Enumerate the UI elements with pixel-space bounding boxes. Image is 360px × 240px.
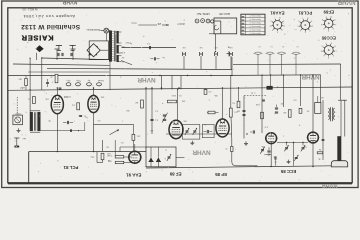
heater mid wire [28, 71, 109, 73]
svg-text:NVHR: NVHR [192, 149, 210, 156]
svg-text:W 6011 - 53: W 6011 - 53 [22, 8, 37, 12]
wave switch contact S3 [214, 46, 218, 69]
wire v x283 [283, 75, 285, 107]
heater bus wire upper [42, 58, 110, 90]
NVHR watermark top-left [62, 0, 77, 4]
extra value labels [44, 92, 344, 160]
svg-text:Skalenlampe: Skalenlampe [86, 28, 100, 31]
transformer tap label 6,3V [120, 51, 125, 53]
wire into EAA91 [115, 140, 184, 163]
svg-text:UK: UK [182, 46, 186, 48]
svg-text:EF89: EF89 [323, 9, 334, 14]
outer border frame [2, 1, 358, 188]
tube label EAA91 [126, 173, 142, 178]
wire v x323 [322, 100, 324, 160]
title annotation number [22, 8, 37, 12]
tube label EF85 bottom [215, 172, 227, 177]
svg-text:0,5M: 0,5M [107, 154, 112, 156]
resistor R1 [27, 97, 36, 104]
svg-text:UK: UK [199, 46, 203, 48]
supply rail wire y69 [47, 68, 232, 69]
electrolytic C2 [75, 79, 80, 86]
mains transformer TR1 core [115, 31, 116, 62]
ground G3 [244, 141, 248, 145]
svg-text:EAA 91: EAA 91 [126, 173, 142, 178]
svg-text:1M: 1M [237, 110, 240, 112]
output transformer TR2 [30, 111, 40, 132]
trimmer C11 [167, 154, 171, 161]
tube label PCL81 [63, 165, 78, 170]
title schaltbild line [21, 23, 80, 30]
wire T1 bottom [56, 114, 58, 152]
pinout diagram ECC85 [320, 35, 337, 57]
pinout diagram EF89 [320, 9, 336, 30]
bottom bus wire right [146, 166, 332, 168]
svg-text:Spannung. 6: Spannung. 6 [249, 32, 261, 34]
wire bottom mid [166, 133, 232, 135]
svg-text:EF 85: EF 85 [215, 172, 227, 177]
rectifier housing box [89, 41, 108, 60]
svg-text:1M: 1M [135, 101, 138, 103]
svg-text:220V~: 220V~ [14, 112, 21, 114]
wire transformer to switch row [122, 47, 177, 49]
tube EF85 T5 [216, 119, 229, 137]
resistor R4 [135, 100, 143, 108]
speaker feed wire [233, 64, 341, 100]
tube EAA91 T3 [128, 151, 142, 163]
wire v x232 [231, 57, 232, 139]
ground G2 [190, 141, 194, 145]
trimmer C21 [301, 143, 305, 152]
electrolytic C4 [59, 79, 104, 89]
svg-text:NVHR: NVHR [62, 0, 77, 4]
mains transformer TR1 secondary windings [117, 31, 122, 62]
capacitor C25 [46, 79, 49, 87]
coupling cap on rail [267, 85, 278, 89]
svg-text:2M: 2M [126, 109, 129, 111]
UKW pointer label [177, 22, 186, 25]
resistor R10 [299, 108, 302, 113]
svg-text:6,3V: 6,3V [120, 51, 125, 53]
resistor R19 [207, 111, 219, 114]
svg-text:24: 24 [157, 22, 161, 26]
capacitor C5 [79, 115, 86, 117]
tube PCL81 T1 [51, 95, 63, 113]
Kaiser diamond logo [36, 45, 76, 52]
bandfilter box B1 [182, 125, 200, 140]
svg-text:Spannung. 6: Spannung. 6 [249, 28, 261, 30]
wave switch contact S4 [229, 46, 233, 69]
main HT rail wire [8, 87, 352, 90]
IF coil L6 [328, 107, 335, 121]
svg-text:Skala: Skala [130, 22, 136, 24]
NVHR watermark bottom-right [322, 182, 338, 188]
supply rail wire right [230, 74, 321, 102]
trimmer C22 [294, 155, 298, 161]
wire v x312 [271, 75, 313, 166]
FM tuner unit box [214, 18, 237, 34]
detector diode D2 [156, 147, 161, 167]
svg-text:1M: 1M [137, 135, 140, 137]
svg-text:Spannung. 6: Spannung. 6 [249, 25, 261, 27]
svg-text:ECC 85: ECC 85 [280, 169, 296, 174]
mains ground [17, 128, 21, 132]
wire antenna terminal A [55, 49, 60, 60]
resistor R15 [204, 87, 239, 94]
capacitor C17 [274, 156, 276, 165]
wave switch contact S2 [199, 46, 203, 69]
bridge rectifier BR1 [87, 44, 108, 57]
trimmer C13 [193, 128, 197, 135]
wire T5 top [222, 88, 224, 119]
wire dashed mains [16, 97, 18, 115]
mains transformer TR1 primary winding [109, 31, 113, 62]
dial lamp label [86, 28, 100, 31]
trimmer C12 [185, 128, 189, 135]
tuning gang dashed link [244, 95, 267, 97]
svg-text:UKW-Teil: UKW-Teil [197, 12, 210, 16]
FM unit label left [197, 12, 210, 16]
svg-text:EAA91: EAA91 [270, 11, 285, 16]
volume pot R18 [110, 130, 141, 141]
resistor R9 [283, 110, 291, 118]
wire logo stub [36, 53, 38, 60]
ferrite antenna pedestal [331, 137, 347, 167]
speaker wires [322, 100, 347, 140]
wire v x262 [261, 75, 263, 133]
NVHR watermark left-middle [137, 76, 155, 83]
title KAISER logotype [21, 33, 54, 42]
filter coil L2 [266, 45, 275, 75]
detector filter box [146, 147, 176, 167]
svg-text:A B: A B [21, 86, 25, 89]
voltage legend table [241, 14, 265, 35]
svg-text:Spannung. 6: Spannung. 6 [249, 18, 261, 20]
volume pot wire [94, 124, 134, 151]
bottom frame step wire [28, 152, 30, 184]
resistor R20 [18, 76, 27, 90]
capacitor C27 [262, 100, 265, 101]
NVHR watermark right-middle [301, 73, 319, 80]
tube label EF89 bottom [169, 171, 181, 176]
capacitor C7 [150, 119, 158, 121]
svg-text:2n: 2n [274, 161, 276, 163]
small cap near transformer [151, 56, 165, 60]
NVHR watermark center-bottom [192, 149, 210, 156]
dial cord run with arrow [138, 24, 169, 26]
resistor R5 [107, 154, 124, 158]
tube label above T1 [63, 95, 70, 97]
wire v x300 [300, 75, 302, 106]
capacitor C6 [63, 121, 73, 124]
bottom bus wire left [29, 151, 146, 153]
filter coil L3 [277, 45, 286, 75]
svg-text:1M: 1M [283, 111, 286, 113]
FM unit tube circles [195, 19, 214, 23]
resistor R17 [261, 112, 264, 119]
resistor R6 [107, 160, 124, 164]
transformer tap label 4V [121, 56, 124, 62]
svg-text:PCL81: PCL81 [298, 11, 312, 16]
tube label ECC85 bottom [280, 169, 296, 174]
scan speckle noise [10, 12, 350, 182]
svg-text:Spannung. 6: Spannung. 6 [249, 22, 261, 24]
wire T2 top [93, 88, 95, 96]
trimmer C20 [284, 143, 288, 152]
ECC85 cathode wire [277, 142, 308, 166]
title edition line [23, 14, 75, 19]
svg-text:ECC85: ECC85 [321, 35, 336, 40]
paper background [0, 0, 360, 192]
svg-text:NVHR: NVHR [137, 76, 155, 83]
mains selector plug [13, 112, 23, 125]
wire v x152 [151, 88, 153, 134]
svg-text:220V: 220V [125, 41, 130, 43]
wire v x247 [243, 96, 246, 139]
misc value labels [21, 42, 260, 105]
NVHR watermark top-right [337, 0, 355, 5]
svg-text:NVHR: NVHR [337, 0, 355, 5]
inner border frame [8, 8, 352, 184]
tube ECC85b T8 [307, 132, 320, 143]
FM unit label right [219, 12, 230, 16]
IF can box [315, 96, 321, 113]
ground G4 [287, 160, 291, 164]
resistor R16 [231, 88, 240, 108]
IF output elbow wire [232, 139, 258, 166]
wire T1 top [56, 88, 58, 96]
coupling caps C26 [162, 113, 168, 123]
output coupling wire [40, 122, 85, 132]
svg-text:1M: 1M [150, 129, 153, 131]
resistor R2 [49, 74, 57, 83]
svg-text:UK: UK [214, 46, 218, 48]
svg-text:50mA: 50mA [98, 79, 104, 82]
dial lamp LP1 [101, 28, 111, 41]
wire v x161 [162, 76, 182, 90]
antenna coupling caps [58, 53, 72, 56]
earth terminal [14, 137, 26, 148]
resistor R11 [317, 148, 323, 154]
wire T2 bottom [93, 113, 95, 152]
wire FM box down [209, 34, 216, 50]
transformer tap label 220V [120, 45, 124, 47]
capacitor C18 [250, 130, 254, 133]
wire T4 top [177, 89, 178, 121]
phono input terminal [227, 45, 232, 56]
wave switch contact S1 [182, 46, 186, 69]
heater bus wire lower [13, 64, 110, 65]
svg-text:PCL 81: PCL 81 [63, 165, 78, 170]
capacitor C23 [267, 147, 270, 156]
pinout diagram EAA91 [269, 11, 285, 33]
tube ECC85a T7 [265, 133, 278, 144]
wire v x146 [145, 88, 147, 148]
resistor R14 [168, 99, 186, 102]
tube EF89 T4 [169, 120, 183, 138]
resistor R7 [229, 108, 237, 117]
electrolytic C3 [87, 79, 92, 86]
electrolytic C1 [66, 79, 71, 86]
svg-text:Schaltbild W 1132: Schaltbild W 1132 [21, 23, 80, 30]
resistor R8 [225, 147, 233, 152]
svg-text:KAISER: KAISER [21, 33, 54, 42]
resistor R3 [71, 103, 79, 110]
cathode cap C8 [90, 140, 111, 163]
bandfilter box B2 [202, 125, 214, 138]
supply rail wire y76 [8, 75, 232, 77]
capacitor C14 [204, 130, 213, 133]
svg-text:EF 89: EF 89 [169, 171, 181, 176]
wire v x30 left [30, 58, 31, 113]
filter coil L1 [254, 45, 263, 75]
dial cord label 24 [157, 22, 161, 26]
dial cord left label [130, 22, 136, 24]
tube EF89 T2 [88, 95, 99, 112]
svg-text:Spannung. 6: Spannung. 6 [249, 15, 261, 17]
trimmer C16 [260, 147, 271, 155]
pinout diagram PCL81 [297, 11, 314, 33]
transformer connection caps [110, 41, 151, 90]
svg-text:UKW-T.: UKW-T. [177, 22, 186, 25]
svg-text:NVHR: NVHR [301, 73, 319, 80]
detector diode D1 [149, 147, 154, 167]
filter coil L4 [292, 45, 301, 75]
svg-text:NVHR: NVHR [322, 182, 338, 188]
capacitor C19 [275, 105, 278, 114]
wire antenna terminal E [71, 49, 76, 60]
svg-text:C 21: C 21 [250, 92, 255, 94]
svg-text:ECC 85: ECC 85 [219, 12, 230, 16]
svg-text:Anl.: Anl. [22, 137, 26, 140]
svg-text:Ausgabe von Juli 1954: Ausgabe von Juli 1954 [23, 14, 75, 19]
